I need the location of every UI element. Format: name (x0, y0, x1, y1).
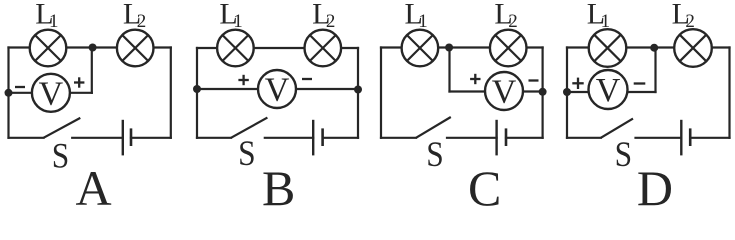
junction dot (89, 44, 97, 52)
wire top B (197, 47, 358, 49)
battery cell (313, 120, 322, 156)
lamp L2 (C) (490, 30, 527, 67)
wire bottom-mid C (447, 137, 497, 139)
svg-text:V: V (265, 72, 290, 109)
svg-text:S: S (52, 136, 70, 176)
label L1 (C) (405, 0, 428, 32)
wire bottom-mid B (265, 137, 313, 139)
lamp L2 (A) (117, 30, 154, 67)
lamp L1 (B) (217, 30, 254, 67)
circuit D group (563, 0, 730, 216)
wire bottom-left D (567, 137, 601, 139)
lamp L1 (A) (30, 30, 67, 67)
wire voltmeter riser A (91, 48, 93, 93)
circuit C group (381, 0, 547, 216)
svg-text:2: 2 (137, 11, 147, 32)
wire bottom-left B (197, 137, 231, 139)
svg-text:V: V (39, 75, 64, 112)
plus sign (470, 74, 480, 84)
label L2 (A) (123, 0, 146, 32)
switch S blade (231, 118, 267, 138)
voltmeter V (485, 72, 523, 111)
minus sign (302, 78, 312, 80)
junction dot (650, 44, 658, 52)
wire bottom-right A (131, 137, 171, 139)
label L2 (C) (494, 0, 517, 32)
label L1 (A) (35, 0, 58, 32)
plus sign (74, 77, 84, 87)
svg-text:V: V (596, 72, 621, 109)
wire top A (9, 46, 171, 48)
wire right D (728, 48, 730, 138)
wire bottom-right B (323, 137, 358, 139)
wire top C (381, 46, 543, 48)
junction dot (539, 88, 547, 96)
svg-text:D: D (637, 160, 673, 206)
voltmeter V (32, 74, 70, 113)
junction dot (563, 88, 571, 96)
svg-text:B: B (262, 160, 295, 206)
svg-text:2: 2 (508, 11, 518, 32)
lamp L1 (D) (589, 29, 627, 67)
svg-text:2: 2 (326, 11, 336, 32)
junction dot (445, 44, 453, 52)
svg-text:S: S (426, 134, 444, 174)
svg-text:S: S (238, 133, 256, 173)
label L1 (D) (587, 0, 610, 32)
svg-text:V: V (492, 74, 517, 111)
battery cell (681, 120, 690, 156)
svg-text:A: A (75, 160, 111, 206)
junction dot (5, 89, 13, 97)
wire right C (541, 48, 543, 138)
svg-text:2: 2 (685, 11, 695, 32)
svg-text:1: 1 (601, 11, 611, 32)
lamp L1 (C) (402, 30, 439, 67)
svg-text:C: C (468, 160, 501, 206)
label L2 (B) (312, 0, 335, 32)
wire bottom-right C (506, 137, 543, 139)
voltmeter V (258, 70, 296, 109)
junction dot (354, 86, 362, 94)
minus sign (529, 79, 539, 81)
plus sign (572, 78, 583, 89)
circuit B group (193, 0, 362, 216)
lamp L2 (B) (305, 30, 342, 67)
switch S blade (44, 118, 81, 138)
wire top D (567, 46, 730, 48)
wire left D (566, 48, 568, 138)
plus sign (238, 75, 248, 85)
label L2 (D) (672, 0, 695, 32)
wire bottom-mid A (72, 137, 123, 139)
svg-text:S: S (615, 134, 633, 174)
wire right A (170, 48, 172, 138)
wire voltmeter branch A (9, 92, 92, 94)
battery cell (123, 120, 131, 156)
lamp L2 (D) (674, 29, 712, 67)
junction dot (193, 85, 201, 93)
wire left C (380, 48, 382, 138)
minus sign (15, 86, 25, 88)
svg-text:1: 1 (418, 11, 428, 32)
battery cell (497, 120, 506, 156)
wire voltmeter branch C (450, 90, 543, 92)
svg-text:1: 1 (49, 11, 59, 32)
wire bottom-right D (690, 137, 729, 139)
wire voltmeter riser D (654, 48, 656, 93)
wire left B (196, 48, 198, 138)
wire voltmeter branch B (197, 88, 358, 90)
svg-text:1: 1 (233, 11, 243, 32)
switch S blade (416, 117, 451, 138)
label L1 (B) (219, 0, 242, 32)
wire voltmeter branch D (567, 91, 656, 93)
wire left A (7, 48, 9, 138)
circuit A group (5, 0, 171, 216)
minus sign (634, 82, 646, 84)
wire bottom-left C (381, 137, 416, 139)
wire voltmeter dropper C (448, 48, 450, 92)
voltmeter V (589, 70, 628, 109)
wire right B (357, 48, 359, 138)
wire bottom-left A (9, 137, 44, 139)
wire bottom-mid D (636, 137, 682, 139)
switch S blade (601, 119, 633, 138)
